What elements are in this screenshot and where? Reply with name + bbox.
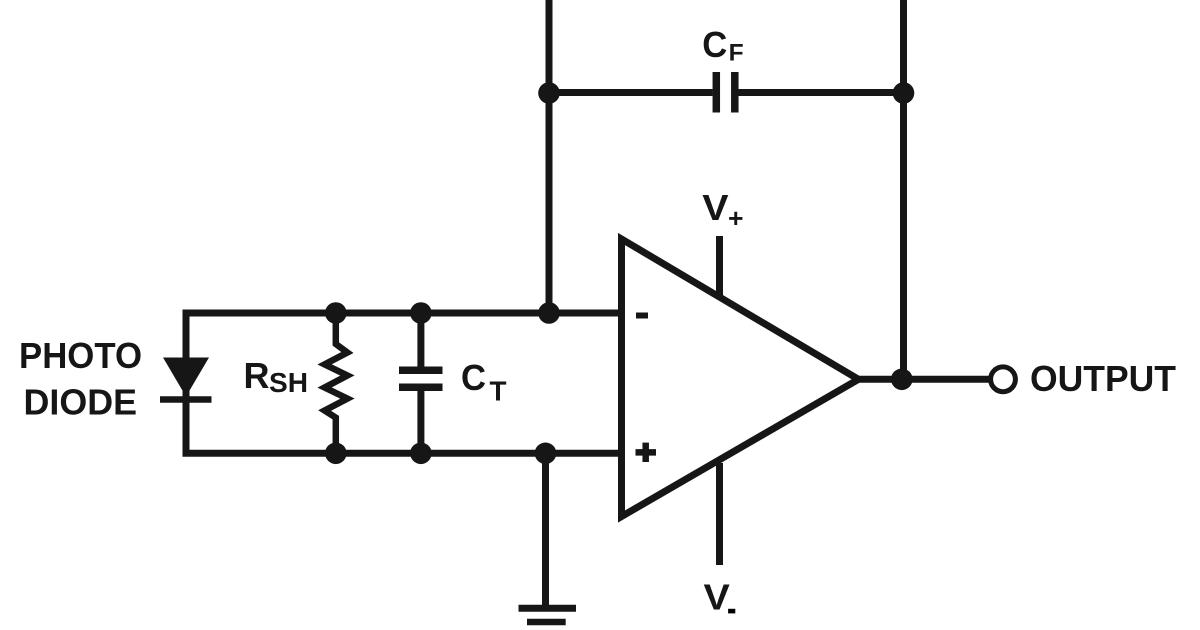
svg-text:PHOTO: PHOTO (19, 335, 142, 376)
svg-text:T: T (490, 375, 507, 406)
svg-text:V: V (704, 576, 730, 617)
svg-text:V: V (702, 187, 728, 228)
svg-text:C: C (461, 357, 486, 398)
svg-text:R: R (244, 355, 270, 396)
svg-text:DIODE: DIODE (24, 382, 138, 423)
svg-text:+: + (728, 203, 744, 233)
svg-text:F: F (729, 40, 744, 67)
svg-text:OUTPUT: OUTPUT (1030, 358, 1176, 399)
svg-text:C: C (702, 24, 727, 65)
svg-text:SH: SH (269, 367, 308, 398)
